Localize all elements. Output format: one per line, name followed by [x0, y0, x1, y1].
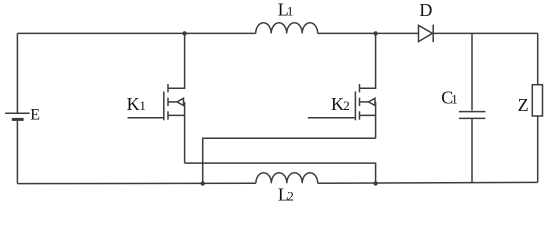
node A junction dot bottom left — [201, 181, 205, 185]
K2 channel dash middle — [359, 98, 361, 106]
wire K1 source to node B — [185, 163, 376, 183]
wire K2 source to node A — [203, 138, 376, 183]
node junction dot top K1 drain — [182, 31, 186, 35]
K1 channel dash top — [167, 84, 169, 92]
inductor L2 — [256, 173, 318, 184]
node B junction dot bottom right — [373, 181, 377, 185]
wire bottom horizontal (right of L2) — [318, 181, 538, 184]
svg-text:1: 1 — [139, 98, 146, 113]
K2 body arrow — [360, 101, 369, 103]
K2 gate plate — [354, 91, 356, 120]
load Z — [532, 85, 542, 116]
svg-text:K: K — [127, 94, 140, 114]
svg-text:1: 1 — [287, 4, 294, 19]
svg-text:D: D — [419, 0, 432, 20]
K2 gate lead — [308, 117, 356, 119]
label K1 — [127, 94, 146, 114]
node junction dot top K2 drain — [373, 31, 377, 35]
wire left vertical (top) — [16, 33, 18, 113]
wire C1 branch lower — [471, 119, 473, 183]
mosfet K1 — [128, 33, 185, 163]
svg-text:2: 2 — [343, 98, 350, 113]
K1 gate lead — [128, 117, 164, 119]
svg-text:E: E — [30, 107, 40, 124]
K1 body arrow — [168, 101, 177, 103]
label L2 — [278, 185, 294, 205]
inductor L1 — [256, 23, 318, 34]
svg-text:2: 2 — [287, 189, 294, 204]
K1 drain lead — [168, 33, 185, 88]
label K2 — [331, 94, 350, 114]
battery E — [5, 113, 30, 119]
mosfet K2 — [308, 33, 376, 138]
K2 channel dash top — [359, 84, 361, 92]
K1 gate plate — [163, 91, 165, 120]
wire right vertical (bottom) — [537, 116, 539, 182]
svg-text:K: K — [331, 94, 344, 114]
label C1 — [441, 88, 458, 108]
diode D — [419, 25, 434, 43]
wire right vertical (top) — [537, 33, 539, 84]
wire left vertical (bottom) — [16, 121, 18, 184]
wire top-left horizontal — [17, 32, 255, 34]
K1 source lead — [168, 114, 185, 116]
wire C1 branch upper — [471, 33, 473, 110]
K2 channel dash bottom — [359, 111, 361, 119]
K1 channel dash middle — [167, 98, 169, 106]
wire top horizontal (L1 to diode) — [318, 32, 419, 34]
K2 drain lead — [360, 33, 376, 88]
K1 channel dash bottom — [167, 111, 169, 119]
svg-text:Z: Z — [518, 95, 529, 115]
svg-text:1: 1 — [451, 92, 458, 107]
label L1 — [278, 0, 294, 20]
wire top horizontal (diode to top-right corner) — [433, 32, 538, 34]
wire bottom horizontal (left of L2) — [17, 182, 256, 184]
capacitor C1 — [459, 112, 486, 119]
K2 source lead — [360, 114, 376, 116]
